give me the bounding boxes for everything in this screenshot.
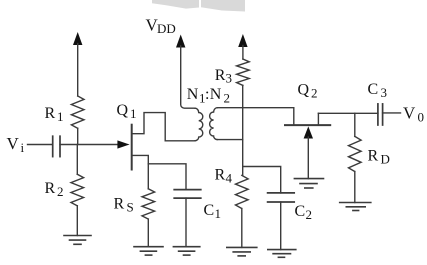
svg-text:R: R <box>368 148 379 165</box>
svg-text:1: 1 <box>57 109 64 124</box>
svg-text:S: S <box>127 200 134 215</box>
ground under Q2 gate <box>294 179 323 188</box>
svg-text:0: 0 <box>418 110 425 125</box>
svg-text::: : <box>205 86 209 103</box>
wire arrow to R1 <box>77 44 79 97</box>
capacitor C3 <box>378 104 383 125</box>
svg-text:1: 1 <box>130 106 137 121</box>
wire input from Vi <box>28 144 53 146</box>
wire R4 to ground <box>241 209 243 248</box>
ground under R4 <box>227 247 257 256</box>
Q2 gate arrowhead <box>304 126 313 138</box>
svg-text:4: 4 <box>226 171 233 186</box>
svg-text:V: V <box>403 104 416 123</box>
wire C2 to ground <box>280 202 282 250</box>
label VDD <box>146 16 176 37</box>
wire Q2 right stub <box>317 113 319 125</box>
ground under C2 <box>268 250 296 258</box>
svg-text:R: R <box>215 67 226 84</box>
svg-text:1: 1 <box>215 206 222 221</box>
label C2 <box>295 203 313 222</box>
svg-text:3: 3 <box>226 71 233 86</box>
power arrow VDD <box>176 35 185 48</box>
label RS <box>114 196 134 215</box>
wire Q1 source <box>132 155 149 188</box>
svg-text:3: 3 <box>381 85 388 100</box>
wire R3 node line down to R4 <box>242 85 244 175</box>
ground under C1 <box>173 247 199 255</box>
svg-text:2: 2 <box>306 207 313 222</box>
svg-text:2: 2 <box>57 184 64 199</box>
svg-text:i: i <box>21 140 25 155</box>
svg-text:Q: Q <box>298 82 310 99</box>
wire Q2 drain to output <box>318 112 378 114</box>
wire secondary top to Q2 <box>217 107 294 109</box>
svg-text:C: C <box>368 81 379 98</box>
gate arrowhead into Q1 <box>117 140 129 148</box>
label RD <box>368 148 390 167</box>
svg-text:N: N <box>210 86 222 103</box>
svg-text:D: D <box>381 152 390 167</box>
ground under RD <box>340 203 371 211</box>
svg-text:Q: Q <box>117 102 129 119</box>
label R2 <box>45 180 64 199</box>
wire arrow to R3 <box>242 46 244 60</box>
resistor R3 <box>237 59 250 85</box>
wire VDD to transformer primary <box>181 46 195 108</box>
svg-text:V: V <box>7 134 20 153</box>
resistor R2 <box>71 174 84 206</box>
label C1 <box>204 202 222 221</box>
wire primary bottom lead <box>165 140 195 142</box>
wire RD to ground <box>354 172 356 203</box>
wire secondary bottom lead to node <box>217 139 242 141</box>
svg-text:R: R <box>114 196 125 213</box>
label R3 <box>215 67 232 86</box>
transformer primary winding N1 <box>195 108 203 141</box>
svg-text:2: 2 <box>311 86 318 101</box>
svg-text:R: R <box>45 180 56 197</box>
transistor Q2 channel bar <box>285 124 330 126</box>
wire Q2 left stub <box>293 108 295 125</box>
ground under RS <box>134 247 163 255</box>
label R1 <box>45 105 64 124</box>
capacitor C2 <box>268 193 295 202</box>
svg-text:R: R <box>215 167 226 184</box>
svg-text:2: 2 <box>224 90 231 105</box>
label N1:N2 <box>187 86 230 105</box>
wire node to R2 <box>76 145 78 175</box>
wire node to RD <box>354 113 356 136</box>
watermark <box>152 0 245 12</box>
wire Q2 gate to ground <box>307 137 309 179</box>
resistor R4 <box>236 175 249 208</box>
wire input to gate <box>60 144 118 146</box>
ground under R2 <box>64 236 91 245</box>
transformer secondary winding N2 <box>210 108 218 140</box>
svg-text:N: N <box>187 86 199 103</box>
resistor R1 <box>71 96 84 128</box>
svg-text:DD: DD <box>157 21 176 36</box>
power arrow above R3 <box>238 34 247 47</box>
resistor RD <box>349 136 362 171</box>
label Vi <box>7 134 25 155</box>
wire R2 to ground <box>76 206 78 236</box>
svg-text:R: R <box>45 105 56 122</box>
wire node to C2 <box>243 167 281 193</box>
resistor RS <box>142 189 155 219</box>
wire Q1 drain staircase to transformer <box>132 113 166 141</box>
wire C1 to ground <box>185 198 187 247</box>
power arrow above R1 <box>73 32 82 45</box>
wire source node to C1 <box>148 164 186 190</box>
wire C3 to V0 <box>383 112 401 114</box>
svg-text:C: C <box>295 203 306 220</box>
label R4 <box>215 167 233 186</box>
wire R1 to input node <box>77 128 79 144</box>
capacitor C1 <box>174 190 201 199</box>
capacitor input coupling <box>53 136 60 156</box>
label V0 <box>403 104 424 125</box>
svg-text:C: C <box>204 202 215 219</box>
label Q2 <box>298 82 318 101</box>
wire RS to ground <box>147 219 149 247</box>
label Q1 <box>117 102 137 121</box>
transistor Q1 channel <box>131 125 133 170</box>
label C3 <box>368 81 388 100</box>
